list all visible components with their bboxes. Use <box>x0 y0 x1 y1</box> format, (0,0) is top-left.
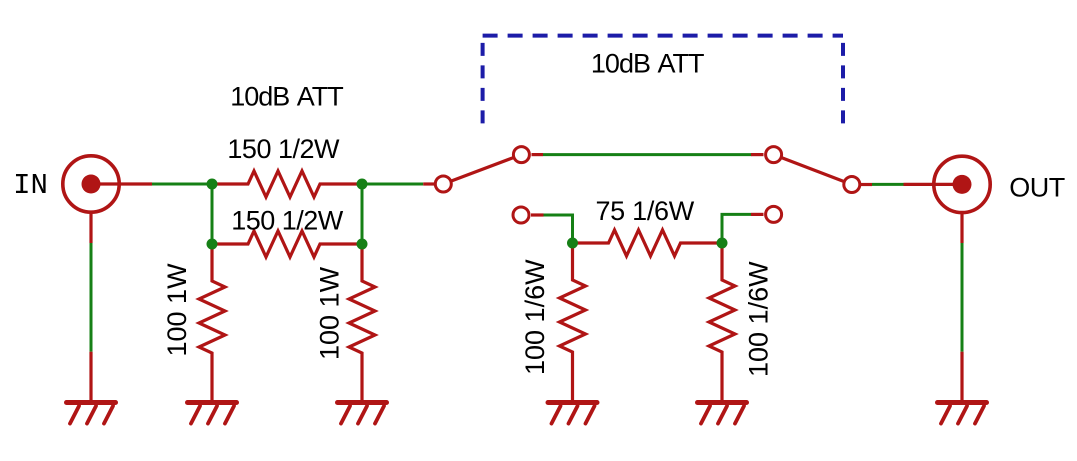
svg-text:150 1/2W: 150 1/2W <box>231 206 344 236</box>
svg-text:10dB ATT: 10dB ATT <box>230 81 343 111</box>
svg-text:100 1W: 100 1W <box>315 266 345 360</box>
svg-text:OUT: OUT <box>1009 173 1065 203</box>
svg-text:100 1/6W: 100 1/6W <box>520 259 550 375</box>
svg-text:100 1W: 100 1W <box>162 263 192 357</box>
svg-text:IN: IN <box>13 169 48 202</box>
svg-text:150 1/2W: 150 1/2W <box>227 134 340 164</box>
svg-text:10dB ATT: 10dB ATT <box>591 49 704 79</box>
svg-text:75 1/6W: 75 1/6W <box>595 196 694 226</box>
svg-text:100 1/6W: 100 1/6W <box>744 261 774 377</box>
